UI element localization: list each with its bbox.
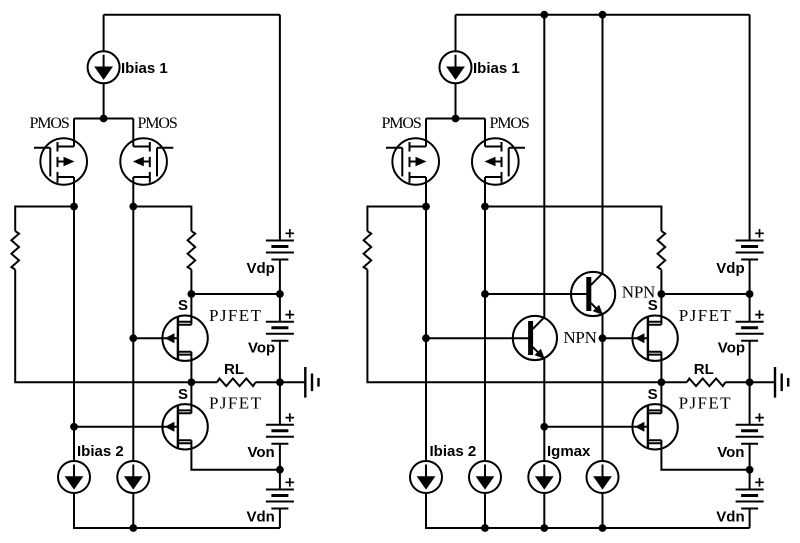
node M2 drain junction [129, 203, 137, 211]
current source Ibias 1 (right) [440, 51, 472, 83]
node output junction (right) [746, 378, 754, 386]
svg-text:S: S [648, 297, 658, 314]
node bottom rail junction [129, 524, 137, 532]
node RL left junction right circuit [658, 378, 666, 386]
node Vdp-Vop junction [276, 290, 284, 298]
wire Q1 emitter rail [602, 315, 604, 461]
wire Vop to Von [279, 341, 281, 425]
transistor PJFET J2 [162, 404, 207, 449]
current source Ibias 1 (left) [88, 51, 120, 83]
wire M2 drain to right resistor [133, 207, 191, 232]
wire R1 bottom to RL row [15, 270, 191, 383]
transistor PMOS M1 [34, 119, 87, 207]
node Von-Vdn junction right [746, 466, 754, 474]
wire J1 gate [133, 337, 178, 339]
resistor RL (right) [687, 379, 726, 387]
wire rail A down [73, 207, 75, 462]
current source Ibias 2a [58, 461, 90, 493]
svg-text:PJFET: PJFET [209, 394, 262, 413]
resistor RL (left) [217, 379, 256, 387]
battery Vdp (right) [736, 229, 764, 260]
wire J3 source lead [660, 294, 662, 325]
svg-text:S: S [178, 386, 188, 403]
transistor PMOS M2 (mirrored) [120, 119, 173, 207]
battery Vdn (left) [266, 478, 294, 509]
node top rail to Q1 collector [599, 11, 607, 19]
svg-text:Ibias 1: Ibias 1 [121, 60, 168, 77]
wire Igmax a to bottom rail [543, 493, 545, 528]
battery Vop (right) [736, 310, 764, 341]
wire R3 bottom to RL row right [367, 270, 661, 383]
svg-text:Ibias 1: Ibias 1 [473, 60, 520, 77]
wire Q1 base [485, 293, 591, 295]
wire Q2 emitter rail [543, 359, 545, 461]
node Q1 base takeoff [481, 290, 489, 298]
transistor PMOS M4 (mirrored) [472, 119, 525, 207]
wire top rail left circuit [104, 14, 280, 16]
wire R4 bottom to S node right [660, 270, 662, 294]
resistor R1 (left outer) [11, 231, 19, 270]
resistor R3 (left outer right circuit) [364, 231, 372, 270]
battery Vdn (right) [736, 478, 764, 509]
wire battery rail top right [749, 15, 751, 241]
node output junction (left) [276, 378, 284, 386]
wire battery rail top [279, 15, 281, 241]
node bottom rail junction f [599, 524, 607, 532]
wire J4 source lead [660, 382, 662, 413]
svg-text:Vop: Vop [718, 340, 745, 357]
wire J1 source lead [190, 294, 192, 325]
wire top rail right circuit [456, 14, 750, 16]
svg-text:Von: Von [717, 444, 744, 461]
svg-text:RL: RL [224, 361, 244, 378]
ground symbol (right) [750, 367, 789, 398]
wire Ibias2a to bottom rail [74, 493, 280, 528]
transistor PJFET J3 [632, 316, 677, 361]
wire Ibias1 to PMOS junction [103, 83, 105, 118]
node Q2 base takeoff [422, 334, 430, 342]
node J4 gate takeoff [540, 423, 548, 431]
node PMOS source junction (right) [452, 115, 460, 123]
svg-text:S: S [648, 386, 658, 403]
svg-text:PMOS: PMOS [30, 115, 69, 132]
svg-text:Vop: Vop [248, 340, 275, 357]
node Vdp-Vop junction right [746, 290, 754, 298]
transistor PMOS M3 [386, 119, 439, 207]
wire J2 drain to Von node [191, 440, 280, 469]
wire RL left stub [191, 381, 217, 383]
wire S node to Vdp node right [661, 293, 749, 295]
resistor R4 (right circuit) [658, 231, 666, 270]
wire Vdp to node right [749, 260, 751, 322]
wire Q2 collector rail [543, 15, 545, 318]
wire Ibias1 stem right [455, 15, 457, 52]
node Von-Vdn junction [276, 466, 284, 474]
svg-text:Igmax: Igmax [547, 443, 591, 460]
wire Vdn to bottom rail [279, 509, 281, 529]
transistor PJFET J4 [632, 404, 677, 449]
wire RL left stub right circuit [661, 381, 686, 383]
svg-text:PJFET: PJFET [209, 306, 262, 325]
wire J2 gate [74, 426, 178, 428]
current source Ibias 2b [117, 461, 149, 493]
wire J3 drain lead [660, 352, 662, 383]
wire Q1 collector rail [602, 15, 604, 274]
node PMOS source junction (left) [100, 115, 108, 123]
wire Ibias2c to bottom rail right [426, 493, 750, 528]
svg-text:PJFET: PJFET [679, 394, 732, 413]
svg-text:PMOS: PMOS [138, 115, 177, 132]
battery Vop (left) [266, 310, 294, 341]
current source Ibias 2d [469, 461, 501, 493]
wire Igmax b to bottom rail [602, 493, 604, 528]
svg-text:Von: Von [248, 444, 275, 461]
node bottom rail junction d [481, 524, 489, 532]
node J2 gate takeoff [70, 423, 78, 431]
wire Von to Vdn right [749, 444, 751, 490]
ground symbol (left) [280, 367, 319, 398]
wire M3 drain to left resistor right circuit [367, 207, 426, 232]
wire M4 drain to right resistor right circuit [485, 207, 661, 232]
wire R2 bottom to S node [190, 270, 192, 294]
wire Von to Vdn [279, 444, 281, 490]
wire Ibias2d to bottom rail right [484, 493, 486, 528]
node J1 source junction [188, 290, 196, 298]
transistor NPN Q1 [571, 272, 615, 316]
wire J1 drain lead [190, 352, 192, 383]
wire PMOS top link right [426, 118, 485, 120]
svg-text:PJFET: PJFET [679, 306, 732, 325]
svg-text:S: S [178, 297, 188, 314]
node top rail to Q2 collector [540, 11, 548, 19]
node M1 drain junction [70, 203, 78, 211]
wire Vdn to bottom rail right [749, 509, 751, 529]
svg-text:PMOS: PMOS [490, 115, 529, 132]
node J1 gate takeoff [129, 334, 137, 342]
node J3 gate takeoff [599, 334, 607, 342]
battery Von (left) [266, 413, 294, 444]
current source Igmax b [587, 461, 619, 493]
svg-text:Vdp: Vdp [247, 260, 275, 277]
svg-text:RL: RL [694, 361, 714, 378]
svg-text:Vdn: Vdn [716, 509, 744, 526]
current source Igmax a [528, 461, 560, 493]
node RL left junction [188, 378, 196, 386]
node M3 drain junction [422, 203, 430, 211]
wire rail C down (M3 drain) [425, 207, 427, 462]
wire RL right stub [256, 381, 280, 383]
wire J3 gate [603, 337, 648, 339]
node bottom rail junction e [540, 524, 548, 532]
wire S node to Vdp node [191, 293, 280, 295]
battery Von (right) [736, 413, 764, 444]
wire rail D down (M4 drain) [484, 207, 486, 462]
wire Q2 base [426, 337, 533, 339]
current source Ibias 2c [410, 461, 442, 493]
svg-text:PMOS: PMOS [382, 115, 421, 132]
battery Vdp (left) [266, 229, 294, 260]
wire J2 source lead [190, 382, 192, 413]
wire Ibias1 stem from top rail [103, 15, 105, 52]
svg-text:Ibias 2: Ibias 2 [430, 443, 477, 460]
transistor NPN Q2 [513, 316, 557, 360]
svg-text:Vdp: Vdp [716, 260, 744, 277]
svg-text:Vdn: Vdn [247, 509, 275, 526]
wire Vop to Von right [749, 341, 751, 425]
wire J4 gate [544, 426, 648, 428]
svg-text:NPN: NPN [563, 328, 596, 347]
wire J4 drain to Von node right [661, 440, 749, 469]
wire RL right stub right circuit [725, 381, 749, 383]
wire M1 drain to left resistor [15, 207, 74, 232]
wire Vdp to node [279, 260, 281, 322]
node M4 drain junction [481, 203, 489, 211]
transistor PJFET J1 [162, 316, 207, 361]
svg-text:Ibias 2: Ibias 2 [77, 443, 124, 460]
wire rail B down [132, 207, 134, 462]
wire Ibias2b to bottom rail [132, 493, 134, 528]
node J3 source junction [658, 290, 666, 298]
resistor R2 (right of PMOS pair) [188, 231, 196, 270]
wire PMOS top link [74, 118, 133, 120]
wire Ibias1 to PMOS junction right [455, 83, 457, 118]
